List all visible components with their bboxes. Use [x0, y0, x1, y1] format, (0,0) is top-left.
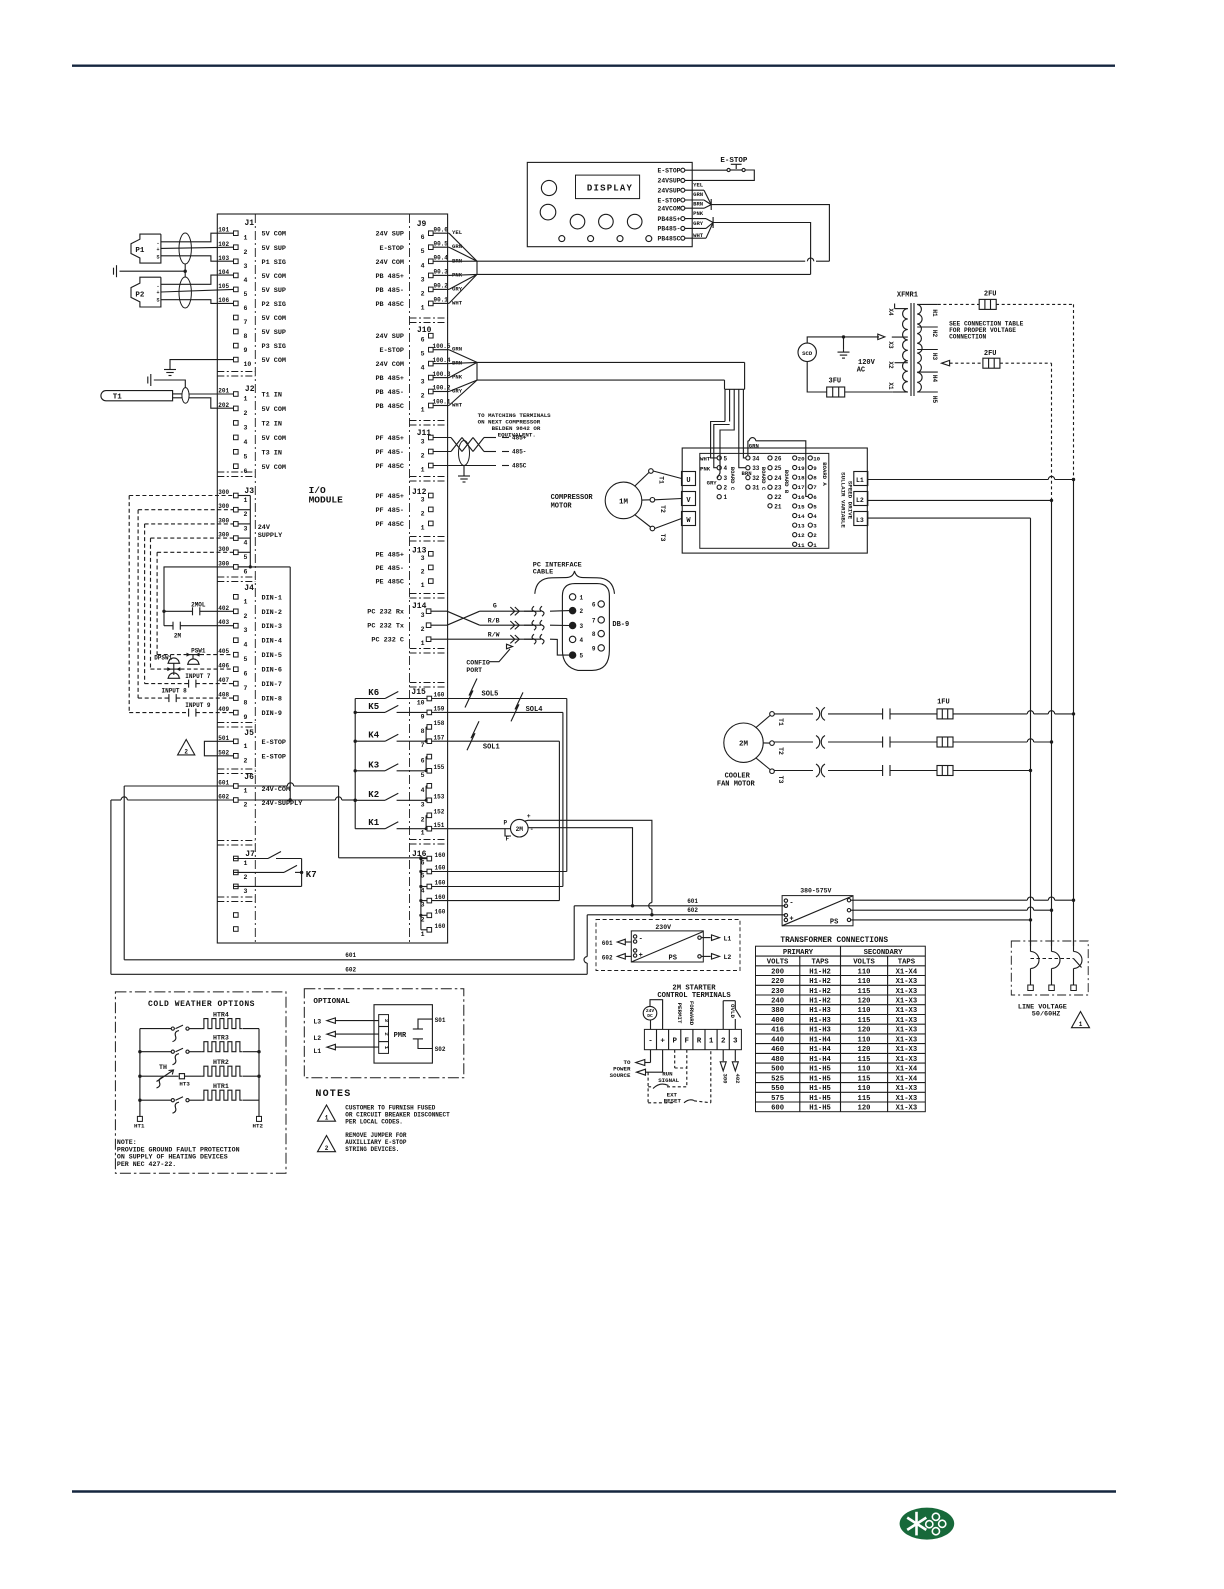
svg-text:P: P — [672, 1037, 677, 1045]
svg-text:159: 159 — [434, 706, 445, 713]
svg-text:1: 1 — [724, 494, 728, 501]
svg-text:5: 5 — [244, 291, 248, 298]
compressor motor 1M — [551, 482, 642, 519]
svg-text:5V SUP: 5V SUP — [262, 329, 286, 337]
svg-text:SECONDARY: SECONDARY — [864, 949, 904, 957]
svg-text:GRY: GRY — [693, 220, 704, 227]
svg-text:485-: 485- — [512, 449, 526, 456]
page bottom rule — [72, 1490, 1116, 1492]
DB-9 connector — [550, 584, 629, 671]
svg-text:155: 155 — [434, 764, 445, 771]
svg-text:WHT: WHT — [452, 402, 463, 409]
svg-text:2: 2 — [325, 1145, 329, 1152]
svg-text:18: 18 — [798, 475, 805, 482]
svg-text:T1: T1 — [658, 476, 665, 484]
svg-text:2: 2 — [244, 802, 248, 809]
wire display E-STOP loop through pushbutton — [685, 170, 755, 180]
svg-text:160: 160 — [435, 923, 446, 930]
svg-text:OVLD: OVLD — [729, 1004, 736, 1018]
svg-text:90.4: 90.4 — [434, 255, 449, 262]
svg-text:FAN MOTOR: FAN MOTOR — [717, 780, 756, 788]
svg-text:DIN-9: DIN-9 — [262, 710, 282, 718]
svg-text:BOARD C: BOARD C — [729, 467, 736, 491]
svg-text:PC 232 C: PC 232 C — [371, 637, 404, 645]
SCD device — [798, 343, 816, 361]
svg-text:L1: L1 — [724, 935, 732, 942]
svg-text:1: 1 — [383, 1046, 390, 1050]
contact INPUT 9 (DIN-9) — [129, 702, 233, 717]
svg-text:INPUT 9: INPUT 9 — [185, 702, 211, 709]
fuse 2FU (upper) — [938, 291, 1074, 310]
motor leads T1 T2 T3 — [635, 469, 682, 542]
svg-text:L3: L3 — [856, 517, 864, 524]
svg-text:5V COM: 5V COM — [262, 357, 286, 365]
power supply PS 380-575V — [782, 887, 853, 926]
svg-text:K6: K6 — [368, 688, 379, 698]
svg-text:TH: TH — [159, 1064, 167, 1071]
wires P2 to J1 (104,105,106) — [161, 275, 234, 303]
svg-text:3: 3 — [421, 439, 425, 446]
svg-text:J15: J15 — [411, 688, 426, 697]
svg-text:L2: L2 — [856, 497, 864, 504]
svg-text:7: 7 — [592, 617, 596, 624]
svg-text:13: 13 — [798, 523, 805, 530]
svg-text:DIN-4: DIN-4 — [262, 638, 282, 646]
svg-text:K3: K3 — [368, 760, 379, 770]
note triangle 1 with text — [318, 1105, 451, 1126]
power bus vertical L1 (dashed above junction) — [1073, 304, 1075, 946]
svg-text:BOARD C: BOARD C — [760, 467, 767, 491]
PMR output contacts S01 S02 — [413, 1017, 446, 1053]
SULLAIR VARIABLE SPEED DRIVE label — [840, 472, 854, 528]
svg-text:INPUT 8: INPUT 8 — [162, 688, 188, 695]
optional box (dash-dot) — [304, 989, 464, 1078]
svg-text:HT2: HT2 — [253, 1123, 264, 1130]
wire 24V-SUPPLY to K bus — [238, 797, 357, 802]
svg-text:16: 16 — [798, 494, 805, 501]
svg-text:SOL1: SOL1 — [483, 744, 500, 752]
svg-text:1: 1 — [813, 542, 817, 549]
svg-text:6: 6 — [421, 758, 425, 765]
svg-text:PNK: PNK — [700, 465, 711, 472]
svg-text:90.1: 90.1 — [434, 297, 449, 304]
svg-text:2M: 2M — [739, 741, 749, 749]
svg-text:DIN-7: DIN-7 — [262, 681, 282, 689]
transformer connections table — [756, 937, 926, 1113]
wire 24V supply from J3-6 down to 602 — [238, 567, 292, 802]
svg-text:U: U — [686, 477, 690, 485]
svg-text:L1: L1 — [856, 477, 864, 484]
svg-text:SOURCE: SOURCE — [610, 1072, 631, 1079]
svg-text:X2: X2 — [887, 361, 894, 369]
heater HTR3 — [140, 1035, 259, 1065]
svg-text:DIN-8: DIN-8 — [262, 696, 282, 704]
svg-text:E-STOP: E-STOP — [262, 739, 286, 747]
svg-text:5V COM: 5V COM — [262, 315, 286, 323]
svg-text:PC 232 Tx: PC 232 Tx — [367, 623, 404, 631]
svg-text:6: 6 — [592, 602, 596, 609]
svg-text:TAPS: TAPS — [898, 959, 916, 967]
svg-text:AC: AC — [857, 367, 865, 375]
svg-text:160: 160 — [435, 852, 446, 859]
svg-text:X3: X3 — [887, 341, 894, 349]
svg-text:DIN-2: DIN-2 — [262, 609, 282, 617]
svg-text:24: 24 — [774, 475, 782, 482]
svg-text:VOLTS: VOLTS — [767, 959, 789, 967]
svg-text:PF 485+: PF 485+ — [375, 493, 404, 501]
svg-text:FORWARD: FORWARD — [688, 1001, 695, 1026]
connector J13 — [375, 547, 433, 590]
svg-text:32: 32 — [752, 475, 760, 482]
svg-text:5: 5 — [244, 656, 248, 663]
wire bundle J10 to variable speed drive — [477, 362, 746, 477]
svg-text:2: 2 — [244, 511, 248, 518]
svg-text:24V-COM: 24V-COM — [262, 786, 291, 794]
svg-text:160: 160 — [435, 894, 446, 901]
svg-text:5V COM: 5V COM — [262, 231, 286, 239]
OVLD contact — [723, 1001, 740, 1030]
relay contact K7 at J7 — [234, 852, 317, 887]
svg-text:3: 3 — [421, 555, 425, 562]
svg-text:-: - — [639, 935, 643, 943]
svg-text:2: 2 — [244, 874, 248, 881]
contact INPUT 8 (DIN-8) — [138, 688, 233, 702]
svg-text:SPEED DRIVE: SPEED DRIVE — [847, 481, 854, 520]
svg-text:PB 485C: PB 485C — [375, 403, 404, 411]
T1 cable shield — [182, 388, 189, 404]
svg-text:PF 485+: PF 485+ — [375, 435, 404, 443]
svg-text:22: 22 — [774, 494, 782, 501]
display panel box — [527, 162, 692, 246]
svg-text:P1: P1 — [135, 247, 145, 255]
svg-text:SULLAIR VARIABLE: SULLAIR VARIABLE — [840, 472, 847, 528]
svg-text:DB-9: DB-9 — [612, 621, 629, 629]
svg-text:25: 25 — [774, 465, 782, 472]
svg-text:153: 153 — [434, 794, 445, 801]
svg-text:BRN: BRN — [742, 470, 752, 477]
svg-text:2: 2 — [244, 249, 248, 256]
svg-text:7: 7 — [813, 484, 817, 491]
svg-text:K2: K2 — [368, 790, 379, 800]
svg-text:5: 5 — [421, 248, 425, 255]
svg-text:1: 1 — [421, 830, 425, 837]
svg-text:COMPRESSOR: COMPRESSOR — [551, 494, 594, 502]
svg-text:4: 4 — [244, 439, 248, 446]
relay contact bus (24V supply) — [354, 699, 357, 829]
svg-text:3: 3 — [421, 379, 425, 386]
TO MATCHING TERMINALS note — [478, 412, 552, 439]
svg-text:6: 6 — [244, 671, 248, 678]
svg-text:10: 10 — [417, 700, 425, 707]
svg-text:P3 SIG: P3 SIG — [262, 343, 286, 351]
svg-text:WHT: WHT — [700, 456, 711, 463]
connector J5 — [218, 729, 286, 764]
fuse 2FU (lower) — [942, 350, 1052, 368]
E-STOP jumper at J5 — [204, 741, 233, 756]
differential pressure switch DPSW1 (DIN-6) — [151, 655, 234, 679]
svg-text:PS: PS — [830, 919, 838, 927]
svg-text:T2: T2 — [777, 747, 784, 755]
svg-text:K1: K1 — [368, 818, 379, 828]
P2 cable shield — [179, 277, 191, 308]
svg-text:ON SUPPLY OF HEATING DEVICES: ON SUPPLY OF HEATING DEVICES — [117, 1154, 228, 1161]
svg-text:90.2: 90.2 — [434, 283, 449, 290]
svg-text:160: 160 — [435, 865, 446, 872]
svg-text:1: 1 — [421, 931, 425, 938]
connector J4 — [218, 584, 282, 721]
svg-text:6: 6 — [421, 234, 425, 241]
SEE CONNECTION TABLE note — [949, 320, 1024, 340]
svg-text:+: + — [639, 952, 643, 960]
svg-text:T3: T3 — [777, 776, 784, 784]
svg-text:9: 9 — [592, 645, 596, 652]
svg-text:S: S — [157, 255, 160, 261]
coil 2M (compressor motor contactor coil) — [432, 813, 534, 843]
T1 shield ground — [148, 374, 186, 388]
power bus vertical L3 — [1030, 518, 1032, 946]
svg-text:R/B: R/B — [488, 618, 500, 625]
svg-text:5V COM: 5V COM — [262, 273, 286, 281]
svg-text:601: 601 — [602, 940, 613, 947]
svg-text:DIN-6: DIN-6 — [262, 667, 282, 675]
pressure switch PSW1 (DIN-5) — [157, 648, 233, 665]
svg-text:12: 12 — [798, 532, 805, 539]
svg-text:6: 6 — [244, 468, 248, 475]
svg-text:GRN: GRN — [693, 191, 703, 198]
svg-text:3: 3 — [724, 475, 728, 482]
24VDC source circle — [643, 1000, 662, 1030]
svg-text:1: 1 — [244, 860, 248, 867]
svg-text:8: 8 — [244, 333, 248, 340]
svg-text:20: 20 — [798, 455, 805, 462]
svg-text:2: 2 — [421, 453, 425, 460]
svg-text:X4: X4 — [887, 308, 894, 316]
svg-text:9: 9 — [421, 713, 425, 720]
svg-text:P2: P2 — [135, 291, 145, 299]
svg-text:14: 14 — [798, 513, 805, 520]
svg-text:E-STOP: E-STOP — [657, 197, 680, 204]
left column section dividers — [217, 371, 255, 373]
Sullair logo — [900, 1508, 955, 1540]
contact 2MOL (DIN-2) — [164, 601, 234, 615]
relay contact K5 — [355, 702, 427, 713]
svg-text:T3 IN: T3 IN — [262, 449, 282, 457]
E-STOP pushbutton (panel) — [720, 157, 748, 172]
svg-text:BRN: BRN — [693, 200, 703, 207]
svg-text:PB 485-: PB 485- — [375, 389, 404, 397]
svg-text:E-STOP: E-STOP — [657, 168, 680, 175]
svg-text:SIGNAL: SIGNAL — [658, 1077, 679, 1084]
display buttons — [540, 180, 652, 241]
power bus vertical L2 (dashed above junction) — [1051, 363, 1053, 946]
svg-text:INPUT 7: INPUT 7 — [185, 673, 211, 680]
drive terminal boxes U V W — [682, 472, 696, 526]
right column section dividers — [410, 317, 448, 319]
svg-text:90.3: 90.3 — [434, 269, 449, 276]
svg-text:NOTE:: NOTE: — [117, 1139, 137, 1146]
wires 2M coil to 601/602 buses — [525, 820, 654, 916]
PMR input arrows L3 L2 L1 — [313, 1018, 378, 1055]
svg-text:PE 485C: PE 485C — [375, 579, 404, 587]
RUN SIGNAL dashed circuit — [648, 1050, 687, 1089]
svg-text:4: 4 — [421, 262, 425, 269]
svg-text:TAPS: TAPS — [811, 959, 829, 967]
svg-text:BOARD B: BOARD B — [783, 470, 790, 494]
svg-text:1: 1 — [421, 524, 425, 531]
svg-text:90.6: 90.6 — [434, 226, 449, 233]
svg-text:90.5: 90.5 — [434, 240, 449, 247]
svg-text:26: 26 — [774, 455, 782, 462]
svg-text:HTR1: HTR1 — [213, 1083, 229, 1090]
connector J15 — [411, 688, 444, 837]
svg-text:3: 3 — [733, 1037, 738, 1045]
svg-text:S01: S01 — [435, 1017, 446, 1024]
svg-text:151: 151 — [434, 822, 445, 829]
svg-text:J5: J5 — [244, 729, 254, 738]
svg-text:3FU: 3FU — [829, 378, 842, 386]
svg-text:CONNECTION: CONNECTION — [949, 333, 986, 340]
wire 601 24V-COM net — [124, 786, 785, 960]
display wire fan with colors — [685, 181, 713, 238]
svg-text:SOL4: SOL4 — [526, 706, 543, 714]
svg-text:100.3: 100.3 — [433, 371, 451, 378]
svg-text:105: 105 — [218, 283, 229, 290]
svg-text:H5: H5 — [931, 396, 938, 404]
svg-text:PS: PS — [669, 955, 677, 963]
page top rule — [72, 64, 1115, 66]
wire 602 24V-SUPPLY net — [111, 797, 786, 975]
P1 cable shield — [179, 233, 191, 264]
svg-text:10: 10 — [244, 361, 252, 368]
svg-text:6: 6 — [421, 337, 425, 344]
svg-text:4: 4 — [724, 465, 728, 472]
svg-text:J9: J9 — [417, 220, 427, 229]
solenoid SOL1 wire loop (J15-7 to J16-3) — [432, 721, 560, 900]
24V supply dashed loops from J3 to inputs — [129, 496, 233, 713]
svg-text:J14: J14 — [412, 602, 427, 611]
svg-text:2: 2 — [580, 608, 584, 615]
svg-text:J2: J2 — [245, 385, 255, 394]
svg-text:-: - — [789, 900, 793, 908]
solenoid SOL5 wire loop (J15-10 to J16-5) — [432, 679, 567, 872]
svg-text:DIN-1: DIN-1 — [262, 594, 282, 602]
svg-text:H2: H2 — [931, 330, 938, 338]
svg-text:31: 31 — [752, 485, 760, 492]
svg-text:R: R — [697, 1037, 702, 1045]
svg-text:2MOL: 2MOL — [191, 601, 206, 608]
svg-text:PF 485-: PF 485- — [375, 507, 404, 515]
svg-text:T1: T1 — [777, 718, 784, 726]
solenoid SOL4 wire loop (J15-9 to J16-4) — [432, 692, 563, 886]
svg-text:PF 485C: PF 485C — [375, 463, 404, 471]
svg-text:X1: X1 — [887, 382, 894, 390]
svg-text:5V COM: 5V COM — [262, 406, 286, 414]
svg-text:SOL5: SOL5 — [482, 691, 499, 699]
svg-text:XFMR1: XFMR1 — [897, 292, 918, 300]
svg-text:100.4: 100.4 — [433, 357, 451, 364]
svg-text:CUSTOMER TO FURNISH FUSED: CUSTOMER TO FURNISH FUSED — [345, 1105, 435, 1112]
drive control board terminals — [700, 443, 829, 549]
svg-text:1: 1 — [421, 582, 425, 589]
svg-text:L2: L2 — [724, 954, 732, 961]
drive internal wire GRN jumper to terminal 6 — [748, 438, 808, 497]
svg-text:T1 IN: T1 IN — [262, 392, 282, 400]
svg-text:-: - — [530, 826, 534, 833]
connector J6 — [218, 773, 303, 809]
svg-text:5: 5 — [244, 554, 248, 561]
svg-text:5V SUP: 5V SUP — [262, 287, 286, 295]
svg-text:157: 157 — [434, 734, 445, 741]
relay contact K2 — [355, 790, 427, 801]
svg-text:152: 152 — [434, 809, 445, 816]
svg-text:100.5: 100.5 — [433, 343, 451, 350]
svg-text:4: 4 — [244, 642, 248, 649]
optional 230V power supply (dashed box) — [596, 920, 740, 971]
svg-text:1: 1 — [1079, 1021, 1083, 1028]
I/O module outline — [217, 214, 447, 943]
svg-text:5V COM: 5V COM — [262, 435, 286, 443]
svg-text:1: 1 — [421, 467, 425, 474]
wires T1 to J2 (201,202) — [189, 394, 234, 408]
svg-text:H4: H4 — [931, 375, 938, 383]
svg-text:K7: K7 — [306, 870, 317, 880]
svg-text:3: 3 — [244, 424, 248, 431]
svg-text:24VSUP: 24VSUP — [657, 188, 680, 195]
svg-text:5: 5 — [244, 453, 248, 460]
svg-text:T2 IN: T2 IN — [262, 420, 282, 428]
svg-text:1: 1 — [244, 497, 248, 504]
svg-text:160: 160 — [435, 880, 446, 887]
svg-text:PNK: PNK — [693, 210, 704, 217]
wire 24V-COM branch to J16-6 — [238, 783, 427, 860]
J9 wire fan with colors — [433, 229, 477, 306]
svg-text:24VSUP: 24VSUP — [657, 178, 680, 185]
J10 wire fan with colors — [433, 346, 477, 409]
svg-text:10: 10 — [813, 455, 820, 462]
svg-text:H3: H3 — [931, 353, 938, 361]
svg-text:120: 120 — [858, 1105, 871, 1113]
svg-text:230V: 230V — [655, 924, 671, 931]
connector J2 — [218, 385, 286, 475]
svg-text:1: 1 — [421, 304, 425, 311]
svg-text:7: 7 — [244, 685, 248, 692]
svg-text:24V SUP: 24V SUP — [375, 333, 404, 341]
fan motor circuit row T1 (contact, overload, fuse 1FU) — [774, 699, 1027, 778]
svg-text:3: 3 — [383, 1019, 390, 1023]
svg-text:24V SUP: 24V SUP — [375, 231, 404, 239]
svg-text:3: 3 — [421, 276, 425, 283]
svg-text:100.1: 100.1 — [433, 399, 451, 406]
svg-text:380-575V: 380-575V — [800, 887, 831, 894]
svg-text:2: 2 — [421, 816, 425, 823]
svg-text:5: 5 — [813, 503, 817, 510]
svg-text:-: - — [157, 240, 160, 246]
svg-text:24V: 24V — [258, 524, 271, 532]
svg-text:21: 21 — [774, 503, 782, 510]
svg-text:1: 1 — [244, 235, 248, 242]
control transformer XFMR1 — [887, 292, 938, 404]
wire L2 from drive to right bus — [867, 499, 1053, 502]
svg-text:4: 4 — [244, 540, 248, 547]
svg-text:MODULE: MODULE — [309, 495, 344, 506]
svg-text:24V-SUPPLY: 24V-SUPPLY — [262, 800, 304, 808]
svg-text:DC: DC — [647, 1013, 653, 1019]
svg-text:NOTES: NOTES — [315, 1089, 351, 1100]
svg-text:PRIMARY: PRIMARY — [783, 949, 814, 957]
config port chevrons — [510, 607, 519, 643]
connector J8 (unlabeled) — [234, 913, 239, 932]
svg-text:RESET: RESET — [664, 1098, 682, 1105]
